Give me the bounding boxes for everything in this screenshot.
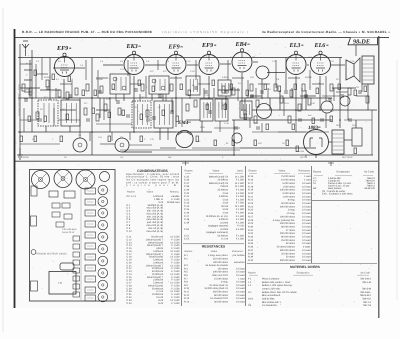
svg-text:Societe SOCRADEL - Paris: Societe SOCRADEL - Paris xyxy=(18,84,21,116)
chassis inner rule xyxy=(80,188,82,300)
svg-text:ACC: ACC xyxy=(158,96,163,99)
svg-text:R 14: R 14 xyxy=(184,300,190,303)
chassis component block 9 xyxy=(85,276,96,282)
resistor xyxy=(254,140,257,146)
wire xyxy=(100,143,115,145)
wire xyxy=(195,60,197,80)
wire xyxy=(23,108,25,132)
wire xyxy=(232,119,332,121)
svg-text:EXC: EXC xyxy=(254,122,259,125)
svg-text:Valeur: Valeur xyxy=(212,169,219,172)
resistances header rule xyxy=(183,243,244,245)
capacitor xyxy=(24,99,28,101)
svg-text:8mf: 8mf xyxy=(330,110,334,113)
wire xyxy=(227,60,229,80)
wire xyxy=(278,131,306,133)
capacitor xyxy=(204,91,208,93)
svg-text:R.R.R. — LE RADIOMAN FRANCE PU: R.R.R. — LE RADIOMAN FRANCE PUB. 47. — R… xyxy=(22,30,152,34)
resistor xyxy=(100,86,103,93)
resistor xyxy=(104,104,107,111)
tube detector envelope xyxy=(257,104,272,119)
resistor xyxy=(58,90,61,97)
resistor xyxy=(84,108,87,115)
svg-text:C 10: C 10 xyxy=(127,230,133,233)
chassis small part 5 xyxy=(73,268,80,273)
wire xyxy=(171,98,173,112)
wire xyxy=(35,64,37,98)
chassis tube socket 3 xyxy=(98,208,108,218)
chassis plug block xyxy=(60,263,74,270)
resistor xyxy=(290,90,293,97)
wire xyxy=(129,144,152,146)
wire xyxy=(20,87,40,89)
wire xyxy=(288,77,300,79)
svg-text:CH.1: CH.1 xyxy=(352,124,358,127)
scan speckle xyxy=(16,39,377,305)
resistor xyxy=(46,80,49,87)
wire xyxy=(36,73,48,75)
model number tab box xyxy=(348,38,378,45)
wire xyxy=(312,83,324,85)
wire xyxy=(40,89,60,91)
wire xyxy=(356,95,368,97)
capacitor xyxy=(147,118,149,122)
svg-text:98oDE: 98oDE xyxy=(353,39,370,46)
resistor xyxy=(246,90,249,96)
junction xyxy=(91,97,93,99)
resistor xyxy=(108,136,111,142)
svg-text:TERRE: TERRE xyxy=(22,156,29,159)
resistor xyxy=(196,136,199,142)
chassis tube socket 1 xyxy=(98,185,108,195)
wire xyxy=(109,98,111,132)
svg-text:TR: TR xyxy=(356,86,359,89)
chassis tube socket 2 xyxy=(98,197,108,207)
capacitor xyxy=(349,118,351,122)
wire xyxy=(361,84,363,92)
resistor xyxy=(20,136,23,142)
wire xyxy=(305,155,307,158)
wire xyxy=(201,121,203,132)
svg-text:C 52: C 52 xyxy=(184,238,190,241)
capacitor xyxy=(68,95,72,97)
svg-text:Valeur: Valeur xyxy=(147,191,154,194)
chassis small part 1 xyxy=(73,236,80,241)
wire xyxy=(186,119,200,121)
wire xyxy=(97,70,99,98)
svg-text:No Code: No Code xyxy=(361,271,371,274)
wire xyxy=(69,126,71,132)
wire xyxy=(145,64,165,66)
capacitor xyxy=(321,118,323,122)
capacitor xyxy=(194,87,198,89)
svg-text:PO: PO xyxy=(40,108,43,111)
wire xyxy=(336,91,348,93)
wire xyxy=(241,73,243,110)
wire xyxy=(203,88,205,98)
svg-text:OSC: OSC xyxy=(140,96,145,99)
resistor xyxy=(112,84,115,90)
wire xyxy=(96,77,108,79)
junction xyxy=(233,154,235,156)
resistor xyxy=(232,88,235,95)
wire xyxy=(333,88,335,101)
resistor xyxy=(244,114,247,120)
wire xyxy=(347,94,349,120)
resistor xyxy=(186,104,189,111)
resistor xyxy=(364,86,367,92)
power transformer xyxy=(332,130,344,154)
resistor xyxy=(94,90,97,96)
wire xyxy=(208,76,210,98)
capacitor xyxy=(260,91,264,93)
svg-text:Puissance: Puissance xyxy=(232,250,244,253)
svg-text:Puissance: Puissance xyxy=(298,169,310,172)
wire xyxy=(31,50,33,132)
wire xyxy=(221,99,223,110)
capacitor xyxy=(224,91,228,93)
svg-text:C 34: C 34 xyxy=(127,302,133,305)
wire xyxy=(332,87,356,89)
resistor xyxy=(28,116,31,122)
svg-text:F 1.500: F 1.500 xyxy=(171,302,180,305)
resistor xyxy=(170,84,173,91)
wire xyxy=(99,98,101,118)
tube EK3 envelope xyxy=(124,51,144,74)
chassis small part 4 xyxy=(73,260,80,265)
capacitor xyxy=(257,126,259,130)
junction xyxy=(133,131,135,133)
chassis component block 6 xyxy=(85,243,96,249)
resistor xyxy=(264,84,267,90)
svg-text:Valeur: Valeur xyxy=(278,169,285,172)
wire xyxy=(29,60,31,98)
resistor xyxy=(316,88,319,94)
junction xyxy=(261,97,263,99)
tube EL6 envelope xyxy=(311,51,331,74)
capacitor xyxy=(127,114,129,118)
dial pointer mark xyxy=(328,162,334,166)
resistor xyxy=(118,108,121,115)
svg-text:25.000: 25.000 xyxy=(96,78,103,81)
svg-text:1re bande RA.: 1re bande RA. xyxy=(262,304,278,307)
wire xyxy=(24,69,32,71)
resistor xyxy=(86,84,89,91)
tube EF9 envelope xyxy=(55,53,75,76)
wire xyxy=(170,77,182,79)
svg-text:3e Radiorecepteur du Construct: 3e Radiorecepteur du Constructeur-Radio.… xyxy=(262,30,390,34)
wire xyxy=(75,67,85,69)
wire xyxy=(261,123,263,132)
wire xyxy=(181,98,183,127)
wire xyxy=(301,88,303,110)
wire xyxy=(165,94,167,101)
resistor xyxy=(146,110,149,117)
resistor xyxy=(206,104,209,110)
wire xyxy=(55,88,57,98)
svg-text:140 volts para: 140 volts para xyxy=(62,228,77,231)
svg-text:TENSION SECTEUR 110/245: TENSION SECTEUR 110/245 xyxy=(36,253,67,256)
wire xyxy=(162,94,164,101)
resistor xyxy=(354,90,357,96)
svg-text:RESISTANCES: RESISTANCES xyxy=(202,245,226,249)
coil can xyxy=(218,80,231,96)
junction xyxy=(319,109,321,111)
coil can xyxy=(38,100,58,126)
svg-text:SECT: SECT xyxy=(300,156,306,159)
wire xyxy=(175,76,177,127)
svg-text:50.000: 50.000 xyxy=(305,76,312,79)
wire xyxy=(20,63,32,65)
resistor xyxy=(366,96,369,103)
capacitor xyxy=(87,118,89,122)
svg-text:C.18: C.18 xyxy=(190,70,195,73)
wire xyxy=(237,88,239,101)
svg-text:Valeur: Valeur xyxy=(211,250,218,253)
svg-text:R 2: R 2 xyxy=(184,258,188,261)
resistor xyxy=(222,86,225,93)
scan edge faint right xyxy=(396,60,398,300)
svg-text:F 4.500: F 4.500 xyxy=(236,228,245,231)
resistor xyxy=(92,108,95,114)
resistor xyxy=(44,116,47,122)
wire xyxy=(322,95,340,97)
junction xyxy=(295,109,297,111)
wire xyxy=(79,98,81,138)
capacitor xyxy=(46,87,50,89)
resistor xyxy=(224,104,227,110)
wire xyxy=(187,64,198,66)
wire xyxy=(123,94,125,101)
antenna input xyxy=(22,41,29,56)
resistor xyxy=(141,84,144,91)
wire xyxy=(18,57,342,59)
wire xyxy=(283,98,285,116)
wire xyxy=(127,60,129,76)
chassis tube socket 5 xyxy=(98,232,108,242)
chassis component block 7 xyxy=(85,254,96,260)
resistor xyxy=(294,84,297,90)
resistor xyxy=(194,100,197,107)
chassis switch left xyxy=(31,216,37,226)
svg-text:760-T-8: 760-T-8 xyxy=(363,304,372,307)
wire xyxy=(232,77,244,79)
svg-text:Designation: Designation xyxy=(297,271,310,274)
svg-text:EXC: EXC xyxy=(258,142,263,145)
resistor xyxy=(122,110,125,116)
wire xyxy=(192,147,240,149)
tube EB4 envelope xyxy=(232,49,252,72)
wire xyxy=(325,76,327,101)
resistor xyxy=(330,84,333,91)
coil can xyxy=(215,99,228,121)
svg-text:C 49: C 49 xyxy=(184,221,190,224)
capacitor xyxy=(208,111,212,113)
wire xyxy=(58,119,80,121)
resistor xyxy=(214,140,217,146)
svg-text:Designation: Designation xyxy=(336,171,350,174)
coil can xyxy=(132,101,151,128)
chassis tube socket 7 xyxy=(98,256,108,266)
resistor xyxy=(152,86,155,92)
chassis component block 3 xyxy=(85,210,96,216)
chassis small part 2 xyxy=(73,244,80,249)
svg-text:C.12: C.12 xyxy=(120,68,125,71)
resistor xyxy=(75,88,78,95)
resistor xyxy=(52,74,55,80)
wire xyxy=(307,64,309,66)
junction xyxy=(109,97,111,99)
svg-text:C.40: C.40 xyxy=(310,102,315,105)
capacitor xyxy=(134,89,138,91)
wire xyxy=(240,147,316,149)
coil can xyxy=(110,74,130,94)
tube EF9 envelope xyxy=(199,51,219,74)
svg-text:R.14: R.14 xyxy=(246,96,251,99)
wire xyxy=(157,60,159,70)
svg-text:TR: TR xyxy=(248,304,251,307)
wire xyxy=(53,108,55,126)
svg-text:pot. bobine: pot. bobine xyxy=(233,254,246,257)
resistor xyxy=(188,90,191,96)
svg-text:50.000: 50.000 xyxy=(44,76,51,79)
wire xyxy=(20,119,38,121)
chassis small part 8 xyxy=(73,292,80,297)
wire xyxy=(120,149,240,151)
wire xyxy=(130,83,142,85)
page edge line right xyxy=(378,36,380,318)
svg-text:borne 25 mf: borne 25 mf xyxy=(62,231,75,234)
resistor xyxy=(292,124,295,130)
chassis power transformer xyxy=(49,272,76,295)
wire xyxy=(367,84,369,110)
chassis component block 5 xyxy=(85,232,96,238)
page edge line left xyxy=(14,29,16,308)
chassis small part 7 xyxy=(73,284,80,289)
svg-text:entraction: entraction xyxy=(234,261,245,264)
tube EM4 tuning eye envelope xyxy=(176,130,193,147)
wire xyxy=(20,143,60,145)
wire xyxy=(339,58,341,129)
oscillator can circle 1 xyxy=(73,138,87,152)
coil can xyxy=(186,76,200,95)
wire xyxy=(344,139,352,141)
junction xyxy=(19,131,21,133)
lamp table bottom rule xyxy=(312,200,378,202)
resistor xyxy=(250,84,253,91)
wire xyxy=(18,154,373,156)
chassis mid part 1 xyxy=(52,203,60,208)
resistor xyxy=(232,140,235,146)
svg-text:C.22: C.22 xyxy=(106,98,111,101)
capacitor xyxy=(340,95,344,97)
svg-text:SEC: SEC xyxy=(336,124,341,127)
wire xyxy=(258,83,270,85)
capacitor xyxy=(158,95,162,97)
wire xyxy=(151,94,153,101)
wire xyxy=(189,95,191,99)
chassis mid part 3 xyxy=(52,212,60,217)
svg-text:CV 1 2 3: CV 1 2 3 xyxy=(127,195,137,198)
svg-text:780-L-M: 780-L-M xyxy=(362,281,371,284)
small can circle top right 2 xyxy=(340,96,350,106)
capacitor xyxy=(235,126,237,130)
svg-text:PO: PO xyxy=(134,106,137,109)
svg-text:No Code: No Code xyxy=(364,171,374,174)
svg-text:precise pour B.: precise pour B. xyxy=(126,184,179,187)
wire xyxy=(96,109,110,111)
wire xyxy=(19,44,21,155)
svg-text:F 1.500: F 1.500 xyxy=(236,238,245,241)
capacitor xyxy=(250,95,254,97)
capacitor xyxy=(328,99,332,101)
tube 1883 rectifier envelope xyxy=(304,130,329,155)
resistor xyxy=(302,84,305,91)
svg-text:30.000 ohms: 30.000 ohms xyxy=(214,300,229,303)
wire xyxy=(167,128,169,140)
wire xyxy=(160,147,176,149)
svg-text:Repere: Repere xyxy=(248,271,257,274)
wire xyxy=(261,79,263,98)
table column rule 2 xyxy=(245,166,247,306)
resistor xyxy=(298,104,301,111)
resistor xyxy=(108,112,111,118)
capacitor xyxy=(98,91,102,93)
wire xyxy=(325,113,327,128)
wire xyxy=(252,131,278,133)
chassis mid part 2 xyxy=(62,203,70,208)
chassis mid part 4 xyxy=(64,214,72,219)
chassis component block 11 xyxy=(85,295,96,301)
resistor xyxy=(66,114,69,120)
wire xyxy=(154,131,176,133)
junction xyxy=(241,109,243,111)
wire xyxy=(319,76,321,110)
svg-text:Repere: Repere xyxy=(127,191,136,194)
wire xyxy=(24,91,32,93)
wire xyxy=(53,67,75,69)
resistor xyxy=(354,148,357,154)
junction xyxy=(31,97,33,99)
wire xyxy=(103,64,123,66)
chassis tube socket 9 xyxy=(98,280,108,290)
schematic frame bottom xyxy=(14,160,378,162)
wire xyxy=(269,98,271,110)
chassis tube socket 4 xyxy=(98,220,108,230)
svg-text:Remarq.: Remarq. xyxy=(170,191,180,194)
wire xyxy=(41,58,43,81)
capacitor xyxy=(358,91,362,93)
resistor xyxy=(68,76,71,82)
junction xyxy=(91,131,93,133)
wire xyxy=(129,132,131,140)
svg-text:1/4 watt: 1/4 watt xyxy=(302,259,311,262)
resistor xyxy=(278,86,281,92)
resistor xyxy=(296,146,299,152)
resistor xyxy=(140,136,143,142)
wire xyxy=(115,94,117,101)
wire xyxy=(49,58,51,101)
output transformer TR xyxy=(362,56,374,84)
IF can top 3 xyxy=(76,170,95,189)
wire xyxy=(218,89,240,91)
chassis fuse xyxy=(31,250,36,255)
materiel divers top rule xyxy=(247,263,377,265)
capacitor xyxy=(152,117,156,119)
capacitor xyxy=(116,101,120,103)
resistor xyxy=(60,136,63,142)
capacitor xyxy=(39,118,41,122)
